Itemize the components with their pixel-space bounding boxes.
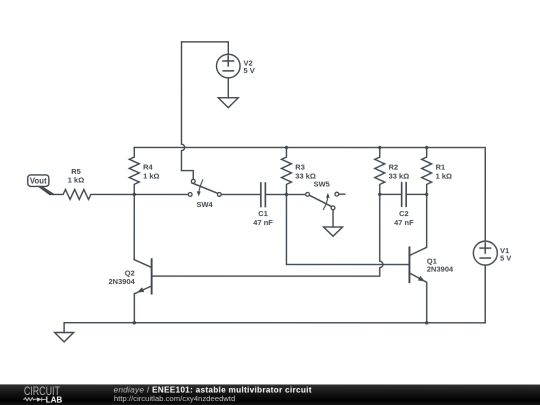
svg-text:2N3904: 2N3904 bbox=[108, 277, 135, 286]
svg-text:C2: C2 bbox=[399, 209, 409, 218]
svg-text:LAB: LAB bbox=[46, 394, 63, 404]
svg-text:5 V: 5 V bbox=[243, 66, 254, 75]
resistor R4 bbox=[129, 147, 139, 194]
node dot R1 top bbox=[425, 146, 428, 149]
resistor R3 bbox=[281, 147, 291, 194]
wire C2 to R1 bottom bbox=[407, 193, 427, 195]
svg-text:1 kΩ: 1 kΩ bbox=[143, 171, 159, 180]
svg-text:C1: C1 bbox=[258, 209, 268, 218]
node dot Q1 emitter/rail bbox=[425, 321, 428, 324]
wire C1 to junction bbox=[266, 193, 286, 195]
svg-text:R3: R3 bbox=[295, 163, 305, 172]
voltage source V2 bbox=[216, 54, 240, 78]
resistor R1 bbox=[422, 148, 432, 195]
resistor R2 bbox=[375, 147, 385, 194]
switch SW4 bbox=[188, 179, 221, 196]
node dot R3 top bbox=[285, 146, 288, 149]
flag Vout bbox=[28, 175, 49, 187]
wire SW5 bottom terminal to ground bbox=[332, 210, 334, 227]
svg-text:endiaye / ENEE101: astable mul: endiaye / ENEE101: astable multivibrator… bbox=[113, 385, 311, 394]
svg-text:47 nF: 47 nF bbox=[253, 218, 273, 227]
wire R2 branch down with hop, left to Q2 base bbox=[152, 194, 383, 276]
node dot R2/C2 bbox=[378, 193, 381, 196]
wire V2 to ground bbox=[227, 78, 229, 98]
wire Q2 collector riser bbox=[133, 194, 135, 259]
node dot R4/R5/SW4/Q2 bbox=[133, 193, 136, 196]
node dot R2 top bbox=[378, 146, 381, 149]
svg-text:1 kΩ: 1 kΩ bbox=[436, 172, 452, 181]
wire V2 branch with hop over top rail, down to SW4 top bbox=[181, 42, 228, 180]
svg-text:47 nF: 47 nF bbox=[394, 218, 414, 227]
wire left ground drop bbox=[63, 323, 65, 333]
wire junction to SW4 left terminal bbox=[134, 193, 188, 195]
wire bottom rail bbox=[64, 322, 485, 324]
svg-text:R1: R1 bbox=[436, 163, 446, 172]
wire R2 bottom to C2 bbox=[380, 193, 401, 195]
capacitor C2 bbox=[401, 183, 403, 207]
node dot C1/R3/SW5 bbox=[285, 193, 288, 196]
wire V1 bottom to rail bbox=[484, 265, 486, 323]
wire SW4 right to C1 bbox=[221, 193, 260, 195]
svg-text:2N3904: 2N3904 bbox=[427, 265, 454, 274]
transistor Q2 bbox=[134, 259, 151, 323]
svg-text:Vout: Vout bbox=[30, 176, 47, 185]
svg-text:http://circuitlab.com/cxy4nzde: http://circuitlab.com/cxy4nzdeedwtd bbox=[114, 394, 235, 403]
ground below SW5 bbox=[324, 227, 343, 236]
ground below V2 bbox=[218, 98, 238, 108]
wire top rail from R4 top to V1 top bbox=[134, 147, 485, 241]
junction dots bbox=[133, 146, 429, 325]
wire junction to SW5 left terminal bbox=[286, 193, 305, 195]
svg-text:SW5: SW5 bbox=[314, 180, 330, 189]
transistor Q1 bbox=[409, 194, 426, 322]
voltage source V1 bbox=[473, 241, 497, 265]
node dot C2/R1 bbox=[425, 193, 428, 196]
svg-text:1 kΩ: 1 kΩ bbox=[68, 176, 84, 185]
wire node B down and right to Q1 base bbox=[286, 194, 409, 264]
logo resistor-diode symbol bbox=[23, 397, 46, 401]
svg-text:5 V: 5 V bbox=[500, 254, 511, 263]
svg-text:SW4: SW4 bbox=[196, 200, 213, 209]
svg-text:R4: R4 bbox=[143, 163, 153, 172]
svg-text:33 kΩ: 33 kΩ bbox=[389, 172, 410, 181]
svg-text:R2: R2 bbox=[389, 163, 399, 172]
node dot Q2 emitter/rail bbox=[133, 321, 136, 324]
capacitor C1 bbox=[260, 183, 262, 207]
ground bottom left bbox=[55, 333, 74, 342]
switch SW5 bbox=[306, 192, 345, 210]
resistor R5 bbox=[54, 189, 135, 199]
